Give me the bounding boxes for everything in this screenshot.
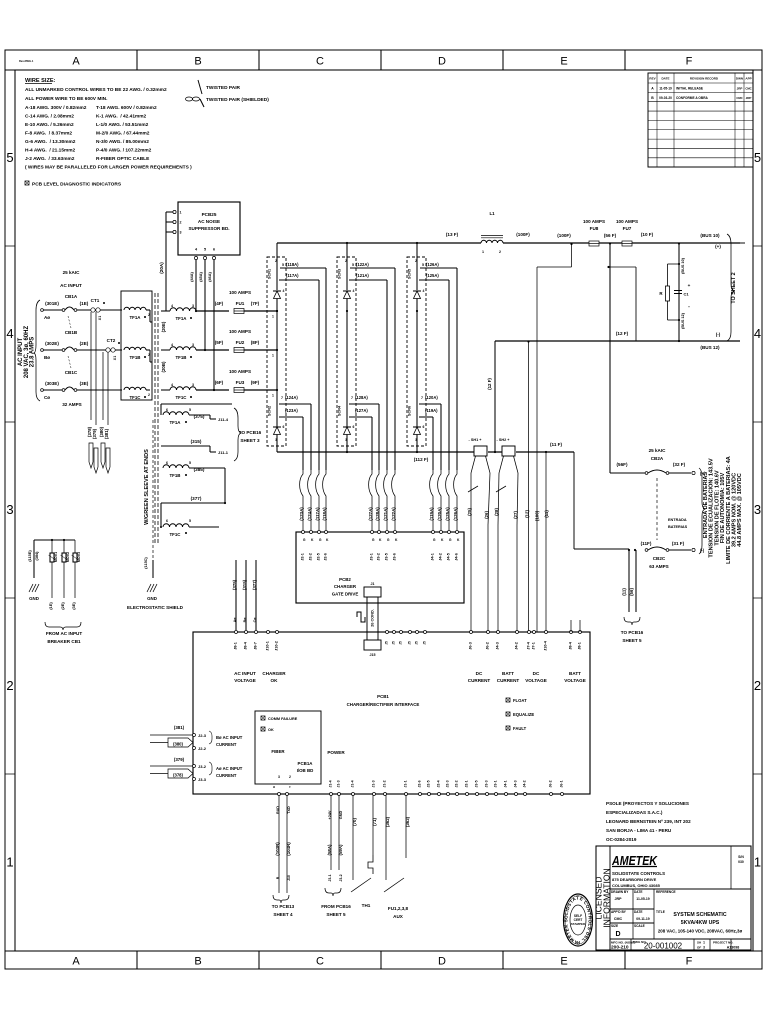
wires 25 26 28 27 down to PCB1 — [471, 525, 517, 632]
svg-text:(1E): (1E) — [49, 602, 53, 610]
svg-text:J5: J5 — [392, 641, 396, 645]
svg-text:(32 F): (32 F) — [673, 462, 686, 467]
resistor R and capacitor C1 network — [659, 257, 690, 329]
svg-text:TF1B: TF1B — [170, 473, 181, 478]
svg-text:C: C — [316, 56, 324, 68]
svg-text:I/OB BD: I/OB BD — [297, 768, 314, 773]
svg-text:PCB LEVEL DIAGNOSTIC INDICATOR: PCB LEVEL DIAGNOSTIC INDICATORS — [32, 182, 122, 188]
svg-text:(381): (381) — [104, 428, 109, 439]
svg-text:TF1A: TF1A — [130, 315, 142, 320]
label 10F — [641, 232, 654, 237]
svg-text:J10-1: J10-1 — [266, 641, 270, 651]
svg-text:(BUS 12): (BUS 12) — [700, 345, 720, 350]
svg-text:J2-6: J2-6 — [418, 780, 422, 787]
svg-text:CHARGER: CHARGER — [262, 671, 286, 676]
svg-text:TXD: TXD — [287, 806, 291, 814]
svg-text:TF1C: TF1C — [170, 532, 182, 537]
svg-text:(100): (100) — [535, 510, 540, 521]
svg-text:3: 3 — [345, 438, 347, 442]
svg-text:7: 7 — [351, 396, 353, 400]
svg-text:TO PCB16: TO PCB16 — [239, 430, 262, 435]
svg-text:44.8 AMPS MAX. @ 105VDC: 44.8 AMPS MAX. @ 105VDC — [737, 473, 743, 547]
svg-text:L1: L1 — [489, 211, 495, 216]
svg-text:(377): (377) — [191, 496, 202, 501]
svg-text:(315): (315) — [191, 439, 202, 444]
svg-text:JRP: JRP — [737, 87, 743, 91]
POWER label — [327, 750, 345, 755]
svg-text:(46A): (46A) — [208, 272, 212, 282]
svg-text:63 AMPS: 63 AMPS — [649, 564, 669, 569]
svg-text:(44A): (44A) — [190, 272, 194, 282]
svg-text:2: 2 — [499, 250, 501, 254]
svg-text:(20B): (20B) — [161, 361, 166, 373]
svg-text:FU3: FU3 — [236, 380, 245, 385]
title block frame — [596, 846, 751, 950]
twisted pair legend — [186, 80, 270, 107]
svg-text:C-14 AWG. / 2.08mm2: C-14 AWG. / 2.08mm2 — [25, 114, 74, 120]
svg-text:(127A): (127A) — [368, 507, 373, 521]
wire FU7 junction down to bus12 — [678, 243, 680, 341]
svg-text:J2-4: J2-4 — [437, 780, 441, 787]
svg-text:SCR4: SCR4 — [338, 405, 342, 416]
fiber optic wires to PCB13 — [272, 796, 295, 918]
svg-text:J3-3: J3-3 — [198, 777, 207, 782]
current transformer arrows into PCB1 — [150, 725, 243, 782]
svg-text:SCR1: SCR1 — [268, 269, 272, 279]
wires 11 56 to PCB16 — [621, 550, 644, 643]
svg-text:5: 5 — [754, 150, 761, 165]
svg-text:GND: GND — [147, 596, 157, 601]
svg-text:AC INPUT: AC INPUT — [234, 671, 256, 676]
svg-text:SCR5: SCR5 — [408, 269, 412, 279]
svg-text:(20E): (20E) — [161, 321, 166, 332]
svg-text:5: 5 — [189, 519, 191, 523]
svg-text:26 COND.: 26 COND. — [371, 609, 375, 627]
svg-text:(56F): (56F) — [617, 462, 628, 467]
svg-text:7: 7 — [421, 396, 423, 400]
svg-text:J3-1: J3-1 — [494, 780, 498, 787]
drawing number row — [611, 940, 739, 951]
primary winding TF1B — [124, 347, 152, 362]
svg-text:PCB1: PCB1 — [377, 694, 389, 699]
svg-text:SAN BORJA - LIMA 41 - PERU: SAN BORJA - LIMA 41 - PERU — [606, 828, 672, 833]
wire 12F feed corner — [607, 266, 636, 341]
svg-text:25 kAIC: 25 kAIC — [63, 270, 81, 275]
svg-text:REVISION RECORD: REVISION RECORD — [690, 77, 719, 81]
svg-text:030: 030 — [738, 860, 744, 864]
svg-text:25 kAIC: 25 kAIC — [649, 448, 667, 453]
svg-text:CHARGER: CHARGER — [334, 584, 357, 589]
svg-text:(4F): (4F) — [215, 301, 224, 306]
svg-text:1: 1 — [703, 941, 705, 945]
svg-text:F-8 AWG. / 8.37mm2: F-8 AWG. / 8.37mm2 — [25, 131, 72, 137]
svg-text:W/GREEN SLEEVE AT ENDS: W/GREEN SLEEVE AT ENDS — [144, 449, 150, 525]
svg-text:09-03-20: 09-03-20 — [659, 96, 672, 100]
svg-text:(2E): (2E) — [80, 341, 89, 346]
svg-text:SHEET 5: SHEET 5 — [326, 912, 346, 917]
svg-text:COLUMBUS, OHIO 43085: COLUMBUS, OHIO 43085 — [612, 883, 661, 888]
size scale row — [611, 924, 645, 938]
wires 24V GND from PCB16 — [321, 796, 351, 918]
svg-text:875 DEARBORN DRIVE: 875 DEARBORN DRIVE — [612, 877, 657, 882]
svg-text:(120A): (120A) — [425, 395, 438, 400]
svg-text:1: 1 — [272, 315, 274, 319]
svg-text:FU1: FU1 — [236, 301, 245, 306]
shield dashed line — [152, 420, 154, 560]
svg-text:(BUS 10): (BUS 10) — [700, 233, 720, 238]
svg-text:PROJECT NO.: PROJECT NO. — [713, 941, 734, 945]
gate wire labels group2 — [368, 470, 396, 530]
svg-text:100 AMPS: 100 AMPS — [616, 219, 638, 224]
svg-text:+24V: +24V — [328, 810, 332, 819]
current transformer CT1 — [91, 298, 105, 320]
thyristor SCR1 — [267, 243, 327, 470]
current transformer CT2 — [106, 338, 120, 360]
svg-text:3: 3 — [415, 438, 417, 442]
svg-text:CURRENT: CURRENT — [497, 678, 520, 683]
svg-text:K: K — [457, 538, 460, 542]
svg-text:SHEET 4: SHEET 4 — [273, 912, 293, 917]
breaker CB1A — [41, 301, 122, 328]
aux winding TF1A sheet3 — [161, 404, 262, 461]
svg-text:J3-2: J3-2 — [198, 764, 207, 769]
svg-text:PCB25: PCB25 — [202, 212, 217, 217]
inductor L1 — [481, 211, 503, 254]
svg-text:J7-1: J7-1 — [532, 642, 536, 650]
svg-text:J1-3: J1-3 — [372, 780, 376, 787]
svg-text:DATE: DATE — [662, 77, 670, 81]
svg-text:100 AMPS: 100 AMPS — [229, 290, 251, 295]
svg-text:(122A): (122A) — [356, 262, 369, 267]
svg-text:200-210: 200-210 — [611, 945, 629, 951]
svg-text:(301E): (301E) — [45, 301, 59, 306]
svg-text:J4-6: J4-6 — [455, 553, 459, 561]
svg-text:(303E): (303E) — [45, 381, 59, 386]
svg-text:A: A — [72, 56, 80, 68]
drawing title — [658, 912, 743, 934]
svg-text:DC: DC — [533, 671, 540, 676]
svg-text:-: - — [688, 304, 690, 310]
text CB1B — [65, 330, 78, 335]
svg-text:6: 6 — [213, 248, 215, 252]
svg-text:E: E — [560, 956, 567, 968]
svg-text:5KVA/4KW UPS: 5KVA/4KW UPS — [681, 920, 720, 926]
PCB2 charger gate drive board — [296, 531, 464, 604]
svg-text:TF1C: TF1C — [176, 395, 188, 400]
svg-text:(70): (70) — [352, 818, 357, 826]
svg-text:4: 4 — [423, 289, 425, 293]
svg-text:J8-4: J8-4 — [569, 641, 573, 649]
svg-text:ELECTROSTATIC SHIELD: ELECTROSTATIC SHIELD — [127, 605, 184, 610]
svg-text:SOLIDSTATE CONTROLS: SOLIDSTATE CONTROLS — [612, 871, 665, 876]
svg-text:C: C — [316, 956, 324, 968]
aux winding TF1C — [160, 496, 226, 537]
svg-text:J4-5: J4-5 — [447, 553, 451, 561]
svg-text:N-3/0 AWG. / 85.00mm2: N-3/0 AWG. / 85.00mm2 — [96, 139, 149, 145]
svg-text:AUX: AUX — [393, 914, 404, 919]
svg-text:(103R): (103R) — [275, 842, 280, 856]
green sleeve note — [144, 449, 150, 525]
svg-text:Bø: Bø — [243, 617, 247, 623]
svg-text:6: 6 — [423, 425, 425, 429]
PSOLE customer text — [606, 801, 691, 842]
svg-text:CURRENT: CURRENT — [216, 773, 237, 778]
svg-text:DWN: DWN — [736, 77, 743, 81]
svg-text:TF1C: TF1C — [130, 395, 142, 400]
secondary winding TF1C and fuse FU3 phase line — [161, 369, 278, 400]
svg-text:J1-2: J1-2 — [383, 780, 387, 787]
svg-text:EQUALIZE: EQUALIZE — [513, 712, 534, 717]
svg-text:VOLTAGE: VOLTAGE — [564, 678, 586, 683]
svg-text:(125A): (125A) — [426, 273, 439, 278]
svg-text:J7-4: J7-4 — [527, 641, 531, 649]
svg-text:FU2: FU2 — [236, 340, 245, 345]
svg-text:PSOLE (PROYECTOS Y SOLUCIONES: PSOLE (PROYECTOS Y SOLUCIONES — [606, 801, 689, 806]
svg-text:(9F): (9F) — [251, 380, 260, 385]
svg-text:(124A): (124A) — [307, 507, 312, 521]
svg-text:Bø: Bø — [44, 355, 50, 360]
svg-text:J5: J5 — [408, 641, 412, 645]
svg-text:5: 5 — [204, 248, 206, 252]
bottom zone letter band — [72, 951, 692, 969]
svg-text:(115C): (115C) — [144, 557, 148, 569]
svg-text:4: 4 — [6, 326, 13, 341]
svg-text:(379): (379) — [174, 757, 185, 762]
svg-text:(+): (+) — [715, 244, 721, 249]
svg-text:3: 3 — [278, 775, 280, 779]
svg-text:(117A): (117A) — [286, 273, 299, 278]
svg-text:J4-2: J4-2 — [515, 642, 519, 650]
svg-text:AMETEK SOLIDSTATE CONTROLS DEL: AMETEK SOLIDSTATE CONTROLS DEL PERU SAC — [0, 0, 593, 945]
svg-text:J10: J10 — [287, 875, 291, 881]
svg-text:J4-3: J4-3 — [514, 780, 518, 787]
svg-text:(380): (380) — [173, 742, 183, 747]
svg-text:Cø: Cø — [253, 617, 257, 623]
svg-text:1: 1 — [6, 855, 13, 870]
svg-text:J2-1: J2-1 — [301, 553, 305, 561]
breaker CB1B — [41, 341, 122, 368]
svg-text:E-10 AWG. / 5.26mm2: E-10 AWG. / 5.26mm2 — [25, 122, 74, 128]
svg-text:11-05-19: 11-05-19 — [636, 897, 649, 901]
svg-text:ALL UNMARKED CONTROL WIRES TO: ALL UNMARKED CONTROL WIRES TO BE 22 AWG.… — [25, 87, 167, 93]
svg-text:5: 5 — [352, 263, 354, 267]
thyristor SCR6 — [408, 392, 442, 470]
transformer core lines — [155, 293, 158, 545]
svg-text:G: G — [433, 538, 436, 542]
svg-text:VOLTAGE: VOLTAGE — [525, 678, 547, 683]
svg-text:SH: SH — [697, 941, 701, 945]
svg-text:J6-1: J6-1 — [560, 780, 564, 787]
svg-text:(56 F): (56 F) — [604, 233, 617, 238]
svg-text:CHARGER/RECTIFIER INTERFACE: CHARGER/RECTIFIER INTERFACE — [347, 702, 420, 707]
svg-text:Aø: Aø — [44, 315, 50, 320]
svg-text:J4-1: J4-1 — [504, 780, 508, 787]
svg-text:E: E — [560, 56, 567, 68]
svg-text:2: 2 — [180, 221, 182, 225]
svg-text:(11): (11) — [622, 588, 627, 596]
svg-text:J1-4: J1-4 — [351, 780, 355, 787]
svg-text:J4-1: J4-1 — [431, 553, 435, 561]
svg-text:5: 5 — [422, 263, 424, 267]
svg-text:1: 1 — [272, 394, 274, 398]
svg-text:Aø AC INPUT: Aø AC INPUT — [216, 766, 243, 771]
svg-text:APP'D BY: APP'D BY — [611, 910, 627, 914]
svg-text:(118A): (118A) — [286, 262, 299, 267]
svg-text:6: 6 — [283, 425, 285, 429]
svg-text:(104R): (104R) — [286, 842, 291, 856]
svg-text:J15: J15 — [370, 653, 376, 657]
svg-text:(2E): (2E) — [61, 602, 65, 610]
svg-text:(381): (381) — [174, 725, 185, 730]
thyristor SCR4 — [338, 392, 380, 470]
svg-text:(27): (27) — [513, 511, 518, 519]
svg-text:FU7: FU7 — [623, 226, 632, 231]
svg-text:(11F): (11F) — [641, 541, 652, 546]
svg-text:GND: GND — [339, 811, 343, 820]
aux fuse contacts FU123 — [384, 796, 410, 920]
fuse FU8 — [583, 219, 605, 246]
svg-text:1: 1 — [482, 250, 484, 254]
PCB1A I/O board — [255, 711, 321, 788]
svg-text:TWISTED PAIR (SHIELDED): TWISTED PAIR (SHIELDED) — [206, 97, 269, 103]
svg-text:J4-3: J4-3 — [496, 642, 500, 650]
svg-text:(119A): (119A) — [429, 507, 434, 521]
svg-text:2: 2 — [148, 393, 150, 397]
svg-text:FIBER: FIBER — [271, 749, 285, 754]
svg-text:(377): (377) — [252, 579, 257, 590]
svg-text:CB1C: CB1C — [65, 370, 78, 375]
PCB1 top edge connectors right — [468, 620, 586, 683]
svg-text:J5: J5 — [399, 641, 403, 645]
battery breaker CB2A — [645, 448, 706, 476]
svg-text:J2-6: J2-6 — [324, 553, 328, 561]
svg-text:(1E): (1E) — [80, 301, 89, 306]
svg-text:(118A): (118A) — [322, 507, 327, 521]
svg-text:(12 F): (12 F) — [616, 331, 629, 336]
svg-text:TITLE: TITLE — [656, 910, 665, 914]
svg-text:J1-3: J1-3 — [337, 780, 341, 787]
svg-text:CB1A: CB1A — [65, 294, 78, 299]
svg-text:FU1,2,3,8: FU1,2,3,8 — [388, 906, 409, 911]
svg-text:TF1B: TF1B — [176, 355, 187, 360]
svg-text:SYSTEM SCHEMATIC: SYSTEM SCHEMATIC — [673, 912, 726, 918]
svg-text:(379): (379) — [92, 428, 97, 439]
svg-text:G: G — [303, 538, 306, 542]
svg-text:R: R — [272, 785, 276, 788]
battery breaker CB2C — [628, 541, 705, 569]
svg-text:L-1/0 AWG. / 53.51mm2: L-1/0 AWG. / 53.51mm2 — [96, 122, 149, 128]
svg-text:7: 7 — [281, 396, 283, 400]
svg-text:MOV2: MOV2 — [66, 552, 70, 562]
svg-text:(126A): (126A) — [426, 262, 439, 267]
svg-text:R: R — [659, 291, 663, 296]
svg-text:TF1A: TF1A — [176, 316, 188, 321]
svg-text:Cø: Cø — [44, 395, 50, 400]
svg-text:(315): (315) — [242, 579, 247, 590]
svg-text:INFORMATION: INFORMATION — [602, 868, 612, 928]
svg-text:ESPECIALIZADAS S.A.C.): ESPECIALIZADAS S.A.C.) — [606, 810, 663, 815]
svg-text:(3E): (3E) — [80, 381, 89, 386]
svg-text:B: B — [194, 56, 201, 68]
svg-text:M-2/0 AWG. / 67.44mm2: M-2/0 AWG. / 67.44mm2 — [96, 131, 150, 137]
AC input rating text — [18, 300, 40, 401]
bus 10 terminal positive — [700, 233, 745, 249]
svg-text:2: 2 — [754, 678, 761, 693]
svg-text:CB2A: CB2A — [651, 456, 664, 461]
svg-text:3: 3 — [703, 946, 705, 950]
svg-text:A13098: A13098 — [727, 946, 740, 950]
svg-text:(28): (28) — [494, 508, 499, 516]
svg-text:J8-7: J8-7 — [254, 642, 258, 650]
svg-text:OK: OK — [268, 728, 274, 732]
svg-text:J8-4: J8-4 — [244, 641, 248, 649]
svg-text:TO PCB13: TO PCB13 — [272, 904, 295, 909]
svg-text:FROM PCB16: FROM PCB16 — [321, 904, 351, 909]
gate wire labels group3 — [429, 470, 458, 530]
top DC bus wire 13F — [277, 232, 740, 245]
svg-text:BATT: BATT — [502, 671, 514, 676]
svg-text:(56): (56) — [629, 588, 634, 596]
PCB1 top edge connectors left — [234, 631, 287, 684]
svg-text:(31 F): (31 F) — [672, 541, 685, 546]
svg-text:5: 5 — [6, 150, 13, 165]
svg-text:(119A): (119A) — [425, 408, 438, 413]
svg-text:AMETEK: AMETEK — [611, 853, 658, 868]
svg-text:J2-2: J2-2 — [455, 780, 459, 787]
svg-text:(362): (362) — [385, 816, 390, 827]
primary winding TF1A — [124, 307, 152, 322]
svg-text:100 AMPS: 100 AMPS — [583, 219, 605, 224]
svg-text:D: D — [438, 56, 446, 68]
svg-text:B: B — [651, 96, 654, 100]
svg-text:SIZE: SIZE — [611, 924, 618, 928]
svg-text:COMM FAILURE: COMM FAILURE — [268, 717, 298, 721]
svg-text:(59A): (59A) — [338, 844, 343, 856]
svg-text:J11-1: J11-1 — [218, 450, 229, 455]
wires 12 100 11 to PCB1 — [525, 243, 573, 632]
svg-text:TO PCB16: TO PCB16 — [621, 630, 644, 635]
svg-text:R-FIBER OPTIC CABLE: R-FIBER OPTIC CABLE — [96, 156, 150, 162]
svg-text:208 VAC, 105-140 VDC, 208VAC,: 208 VAC, 105-140 VDC, 208VAC, 60Hz,3ø — [658, 929, 743, 934]
svg-text:J3-1: J3-1 — [370, 553, 374, 561]
svg-text:X1: X1 — [98, 316, 102, 320]
svg-text:G-6 AWG. / 13.30mm2: G-6 AWG. / 13.30mm2 — [25, 139, 76, 145]
wire 12F vertical — [487, 341, 495, 452]
svg-text:4: 4 — [754, 326, 761, 341]
svg-text:5: 5 — [189, 461, 191, 465]
svg-text:CB1B: CB1B — [65, 330, 78, 335]
PCB25 AC noise suppressor board — [166, 202, 240, 260]
svg-text:F: F — [686, 56, 693, 68]
svg-text:APP: APP — [745, 77, 751, 81]
svg-text:PCB2: PCB2 — [339, 577, 351, 582]
svg-text:J2-2: J2-2 — [198, 746, 207, 751]
svg-text:PCB1A: PCB1A — [298, 761, 314, 766]
svg-text:F: F — [686, 956, 693, 968]
connector J1 and ribbon 26 COND — [357, 582, 381, 657]
svg-text:(121A): (121A) — [383, 507, 388, 521]
battery ratings vertical text — [699, 456, 743, 564]
svg-text:T-18 AWG. 600V / 0.82mm2: T-18 AWG. 600V / 0.82mm2 — [96, 105, 157, 111]
svg-text:(8F): (8F) — [251, 340, 260, 345]
svg-text:(5F): (5F) — [215, 340, 224, 345]
svg-text:3: 3 — [275, 438, 277, 442]
svg-text:REV: REV — [649, 77, 655, 81]
svg-text:AC NOISE: AC NOISE — [198, 219, 220, 224]
svg-text:T: T — [288, 786, 292, 788]
svg-text:K-1 AWG. / 42.41mm2: K-1 AWG. / 42.41mm2 — [96, 114, 147, 120]
svg-text:J8-1: J8-1 — [578, 642, 582, 650]
